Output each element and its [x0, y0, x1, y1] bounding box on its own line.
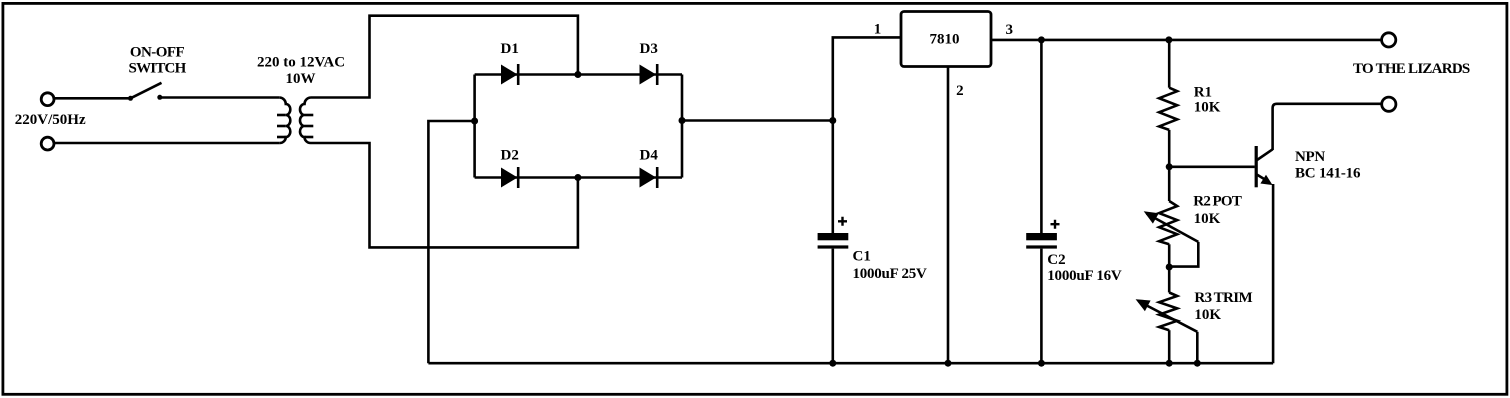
node C2 bottom (junction) — [1038, 360, 1045, 367]
wire C1 to ground rail — [831, 249, 834, 364]
svg-text:1000uF 25V: 1000uF 25V — [853, 266, 928, 282]
svg-text:R3 TRIM: R3 TRIM — [1194, 290, 1252, 306]
svg-text:10W: 10W — [286, 71, 316, 87]
switch S1 — [128, 96, 133, 101]
svg-text:D3: D3 — [640, 41, 658, 57]
node bridge left (junction) — [471, 118, 478, 125]
label C1 polarity + — [838, 217, 847, 226]
transformer primary winding — [280, 98, 291, 144]
label C2 polarity + — [1051, 220, 1060, 229]
potentiometer R2 wiper arrow — [1147, 214, 1199, 242]
node R3 wiper bottom (junction) — [1194, 360, 1201, 367]
svg-text:7810: 7810 — [930, 31, 960, 47]
svg-text:2: 2 — [956, 83, 964, 99]
svg-text:1000uF 16V: 1000uF 16V — [1047, 268, 1122, 284]
node bridge top (junction) — [574, 71, 581, 78]
wire C2 branch — [1040, 40, 1043, 233]
bridge rectifier outline — [475, 73, 682, 76]
node pin2 ground (junction) — [945, 360, 952, 367]
node C1 bottom (junction) — [829, 360, 836, 367]
wire C2 to ground rail — [1040, 249, 1043, 364]
svg-text:R2 POT: R2 POT — [1193, 194, 1242, 210]
node base (junction) — [1166, 163, 1173, 170]
node C1 top (junction) — [829, 117, 836, 124]
svg-text:NPN: NPN — [1295, 149, 1325, 165]
wire output rail to terminal — [1041, 39, 1381, 42]
svg-text:10K: 10K — [1194, 211, 1221, 227]
wire base to transistor — [1169, 166, 1255, 169]
wire rail to R1 — [1168, 40, 1171, 88]
potentiometer R2 — [1159, 201, 1177, 244]
svg-text:R1: R1 — [1194, 85, 1212, 101]
svg-text:220V/50Hz: 220V/50Hz — [15, 112, 86, 128]
diode D3 — [640, 65, 657, 85]
transformer secondary winding — [300, 98, 311, 144]
svg-text:C2: C2 — [1047, 252, 1065, 268]
svg-text:TO THE LIZARDS: TO THE LIZARDS — [1353, 61, 1470, 77]
transistor Q1 base bar — [1255, 146, 1258, 187]
svg-text:10K: 10K — [1194, 307, 1221, 323]
wire bridge left node to ground rail — [428, 121, 474, 363]
wire regulator pin3 output — [991, 39, 1041, 42]
node bridge right (junction) — [679, 117, 686, 124]
wire secondary top to bridge top node — [311, 16, 578, 98]
wire R3 to ground rail — [1168, 330, 1171, 363]
wire R2 wiper to bottom terminal — [1169, 242, 1198, 267]
svg-text:SWITCH: SWITCH — [129, 61, 187, 77]
svg-text:D4: D4 — [640, 148, 659, 164]
svg-text:D1: D1 — [501, 41, 519, 57]
wire R1 to base node — [1168, 130, 1171, 167]
trimmer R3 wiper arrow — [1139, 301, 1198, 332]
wire R3 wiper to ground rail — [1196, 332, 1199, 363]
transistor Q1 emitter lead with arrow — [1257, 175, 1268, 182]
resistor R1 — [1159, 88, 1177, 130]
wire bridge right node to regulator input — [682, 119, 833, 122]
svg-text:3: 3 — [1005, 22, 1013, 38]
regulator U1 7810 — [901, 12, 991, 67]
svg-text:BC 141-16: BC 141-16 — [1295, 166, 1361, 182]
node R2 wiper tie (junction) — [1166, 264, 1173, 271]
terminal J2 (220V bottom) — [41, 137, 54, 150]
svg-text:D2: D2 — [501, 148, 519, 164]
node bridge bottom (junction) — [574, 174, 581, 181]
capacitor C2 — [1026, 233, 1057, 240]
terminal J4 (output -) — [1382, 97, 1396, 111]
transistor Q1 collector lead — [1257, 149, 1273, 160]
wire regulator pin1 drop to C1 — [833, 37, 901, 233]
ground rail — [428, 362, 1273, 365]
capacitor C1 — [818, 233, 849, 240]
terminal J1 (220V top) — [41, 93, 54, 106]
svg-text:ON-OFF: ON-OFF — [130, 44, 185, 60]
wire J2 to transformer primary — [54, 142, 280, 145]
diode D4 — [640, 168, 657, 188]
trimmer R3 — [1159, 293, 1177, 331]
wire base node to R2 — [1168, 167, 1171, 201]
node C2 top (junction) — [1038, 36, 1045, 43]
wire J1 to switch — [54, 97, 131, 100]
svg-text:C1: C1 — [853, 249, 871, 265]
svg-text:10K: 10K — [1194, 100, 1221, 116]
svg-text:1: 1 — [874, 21, 882, 37]
terminal J3 (output +) — [1382, 33, 1396, 47]
node R1 top (junction) — [1165, 36, 1172, 43]
wire secondary bottom to bridge bottom node — [311, 143, 578, 247]
wire collector to terminal J4 — [1273, 104, 1382, 150]
diode D2 — [501, 168, 518, 188]
wire regulator pin2 to ground rail — [947, 67, 950, 364]
wire R2 to R3 — [1168, 244, 1171, 292]
wire emitter to ground rail — [1272, 184, 1275, 363]
diode D1 — [501, 65, 518, 85]
wire switch to transformer primary — [160, 96, 280, 99]
node R3 bottom (junction) — [1166, 360, 1173, 367]
svg-text:220 to 12VAC: 220 to 12VAC — [257, 54, 345, 70]
